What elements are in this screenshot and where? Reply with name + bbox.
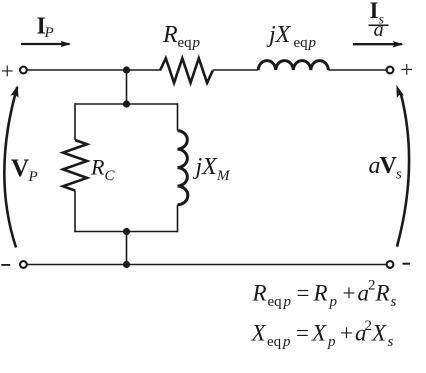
inductor jXeqp xyxy=(258,61,328,70)
wire box left lower lead xyxy=(74,191,76,233)
arrow IP direction xyxy=(21,43,70,45)
svg-text:X: X xyxy=(371,321,387,346)
equation Xeqp = Xp + a2Xs xyxy=(251,318,394,350)
wire vertical from top node to shunt box xyxy=(126,70,128,104)
node junction box bottom xyxy=(123,228,130,235)
minus sign primary xyxy=(1,264,10,266)
svg-text:jX: jX xyxy=(193,154,219,180)
svg-text:P: P xyxy=(44,25,54,41)
svg-text:X: X xyxy=(311,321,327,346)
wire box right lower lead xyxy=(177,205,179,233)
resistor RC xyxy=(63,140,87,191)
terminal circle primary + xyxy=(20,67,27,74)
svg-text:eq: eq xyxy=(178,35,193,51)
svg-text:2: 2 xyxy=(368,278,376,294)
node junction bottom xyxy=(123,261,130,268)
wire top left xyxy=(27,69,160,71)
svg-text:P: P xyxy=(28,169,38,185)
wire box left upper lead xyxy=(74,103,76,140)
wire box bottom xyxy=(75,231,178,233)
svg-text:s: s xyxy=(391,294,397,310)
minus sign secondary xyxy=(403,263,411,265)
svg-text:R: R xyxy=(90,154,105,179)
inductor jXM xyxy=(178,131,188,205)
equation Reqp = Rp + a2Rs xyxy=(252,278,397,310)
svg-text:2: 2 xyxy=(365,318,373,334)
svg-text:p: p xyxy=(308,35,317,51)
svg-text:p: p xyxy=(327,334,336,350)
resistor Reqp xyxy=(160,58,213,83)
svg-text:R: R xyxy=(375,280,390,305)
wire box right upper lead xyxy=(177,103,179,130)
svg-text:+: + xyxy=(340,321,353,346)
svg-text:p: p xyxy=(329,294,338,310)
wire box top xyxy=(75,103,178,105)
svg-text:V: V xyxy=(11,155,29,182)
terminal circle secondary + xyxy=(387,67,394,74)
svg-text:s: s xyxy=(388,334,394,350)
svg-text:jX: jX xyxy=(266,22,292,48)
node junction box top xyxy=(123,100,130,107)
svg-text:X: X xyxy=(251,321,267,346)
arrowhead aVs xyxy=(396,85,404,98)
svg-text:p: p xyxy=(192,35,201,51)
svg-text:p: p xyxy=(282,334,291,350)
svg-text:R: R xyxy=(313,280,328,305)
arrow Is/a direction xyxy=(353,43,402,45)
wire vertical from box bottom to bottom rail xyxy=(126,232,128,265)
svg-text:=: = xyxy=(297,280,310,305)
wire bottom rail xyxy=(27,264,386,266)
svg-text:=: = xyxy=(296,321,309,346)
svg-text:+: + xyxy=(1,58,14,83)
wire top right xyxy=(328,69,386,71)
svg-text:a: a xyxy=(374,19,384,41)
svg-text:M: M xyxy=(216,168,231,184)
svg-text:+: + xyxy=(343,280,356,305)
svg-text:eq: eq xyxy=(294,35,309,51)
svg-text:s: s xyxy=(396,166,402,182)
svg-text:R: R xyxy=(252,280,267,305)
svg-text:V: V xyxy=(380,153,398,179)
arrow aVs polarity (curved) xyxy=(397,94,409,247)
svg-text:eq: eq xyxy=(267,334,282,350)
svg-text:eq: eq xyxy=(268,294,283,310)
terminal circle primary - xyxy=(20,261,27,268)
arrow VP polarity (curved) xyxy=(4,87,17,248)
terminal circle secondary - xyxy=(387,261,394,268)
svg-text:p: p xyxy=(283,294,292,310)
wire top middle xyxy=(213,69,258,71)
node junction top xyxy=(123,66,130,73)
svg-text:R: R xyxy=(162,22,178,48)
svg-text:+: + xyxy=(400,57,413,82)
svg-text:C: C xyxy=(105,168,116,184)
